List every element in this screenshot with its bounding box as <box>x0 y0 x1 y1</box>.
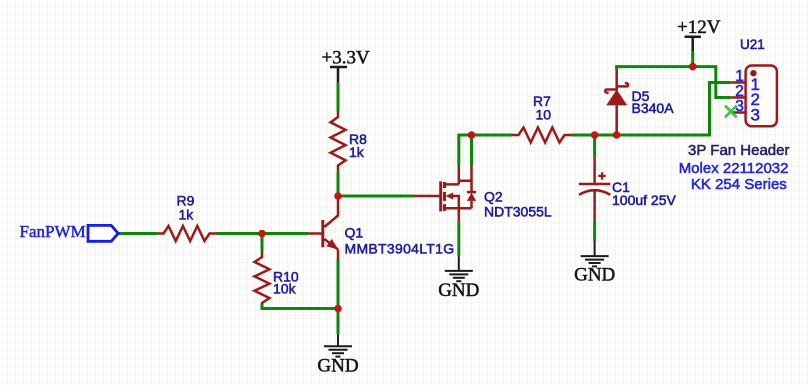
svg-text:1k: 1k <box>349 144 365 160</box>
power +12V <box>685 37 701 52</box>
no-connect X on pin 3 <box>725 106 737 118</box>
pin 3 <box>731 111 746 114</box>
svg-text:+3.3V: +3.3V <box>322 48 370 69</box>
ground under C1 <box>581 241 609 266</box>
wire: R8 bottom to collector node <box>337 172 340 196</box>
svg-text:Molex 22112032: Molex 22112032 <box>679 160 789 177</box>
port FanPWM <box>20 222 119 241</box>
svg-text:10: 10 <box>536 107 552 123</box>
svg-text:GND: GND <box>438 280 479 301</box>
resistor R9 <box>157 226 217 241</box>
resistor R8 <box>331 111 346 172</box>
svg-text:3: 3 <box>751 105 760 124</box>
svg-text:NDT3055L: NDT3055L <box>484 203 552 219</box>
svg-text:FanPWM: FanPWM <box>20 222 86 241</box>
connector U21 <box>746 66 777 127</box>
ground under Q1 <box>324 334 352 356</box>
resistor R10 <box>255 251 270 304</box>
capacitor C1 <box>579 158 611 221</box>
resistor R7 <box>512 128 571 143</box>
svg-text:B340A: B340A <box>632 100 675 116</box>
wire: R9 to Q1 base through node <box>217 232 309 235</box>
svg-text:MMBT3904LT1G: MMBT3904LT1G <box>345 240 455 256</box>
wire: +12V stub <box>691 51 694 66</box>
ground under Q2 <box>445 256 473 281</box>
wire: node to GND stub <box>337 309 340 335</box>
svg-text:+12V: +12V <box>677 17 721 38</box>
wire: Q1 emitter to node <box>337 259 340 309</box>
svg-text:Q2: Q2 <box>484 189 503 205</box>
pin 2 <box>731 96 746 99</box>
power +3.3V <box>330 67 347 83</box>
junction node R9/R10/base <box>258 230 266 238</box>
transistor Q2 <box>414 166 476 222</box>
wire: node to Q2 gate <box>338 195 414 198</box>
wire: C1 tap <box>593 135 596 158</box>
wire: D5 cathode to +12V rail to header pin 2 <box>617 67 731 98</box>
wire: port to R9 <box>118 232 157 235</box>
junction node Q2 drain/diode <box>468 131 476 139</box>
svg-text:Q1: Q1 <box>345 225 364 241</box>
svg-text:1k: 1k <box>179 207 195 223</box>
wire: +3.3V to R8 <box>337 83 340 111</box>
pin 1 <box>731 81 746 84</box>
junction node D5 anode <box>613 131 621 139</box>
wire: Q2 drain up to main net <box>459 135 512 166</box>
wire: R7 to header pin 1 <box>571 83 731 136</box>
diode D5 <box>605 70 628 135</box>
svg-text:10k: 10k <box>273 281 297 297</box>
svg-text:KK 254 Series: KK 254 Series <box>691 176 787 193</box>
transistor Q1 <box>308 196 338 259</box>
wire: node to R10 top <box>261 234 264 252</box>
junction node C1 tap <box>591 131 599 139</box>
wire: C1 bottom to GND stub <box>593 220 596 241</box>
svg-text:3P Fan Header: 3P Fan Header <box>688 142 789 159</box>
junction node R10/emitter/GND <box>334 305 342 313</box>
svg-text:GND: GND <box>317 356 358 377</box>
wire: Q2 source to GND stub <box>457 221 460 256</box>
svg-text:U21: U21 <box>740 37 765 52</box>
svg-text:100uf 25V: 100uf 25V <box>612 192 676 208</box>
junction node R8/collector/gate <box>334 192 342 200</box>
wire: R10 bottom to emitter node <box>262 304 338 309</box>
svg-text:GND: GND <box>574 265 615 286</box>
wire: Q2 body diode to node <box>470 135 473 166</box>
junction node +12V <box>689 63 697 71</box>
